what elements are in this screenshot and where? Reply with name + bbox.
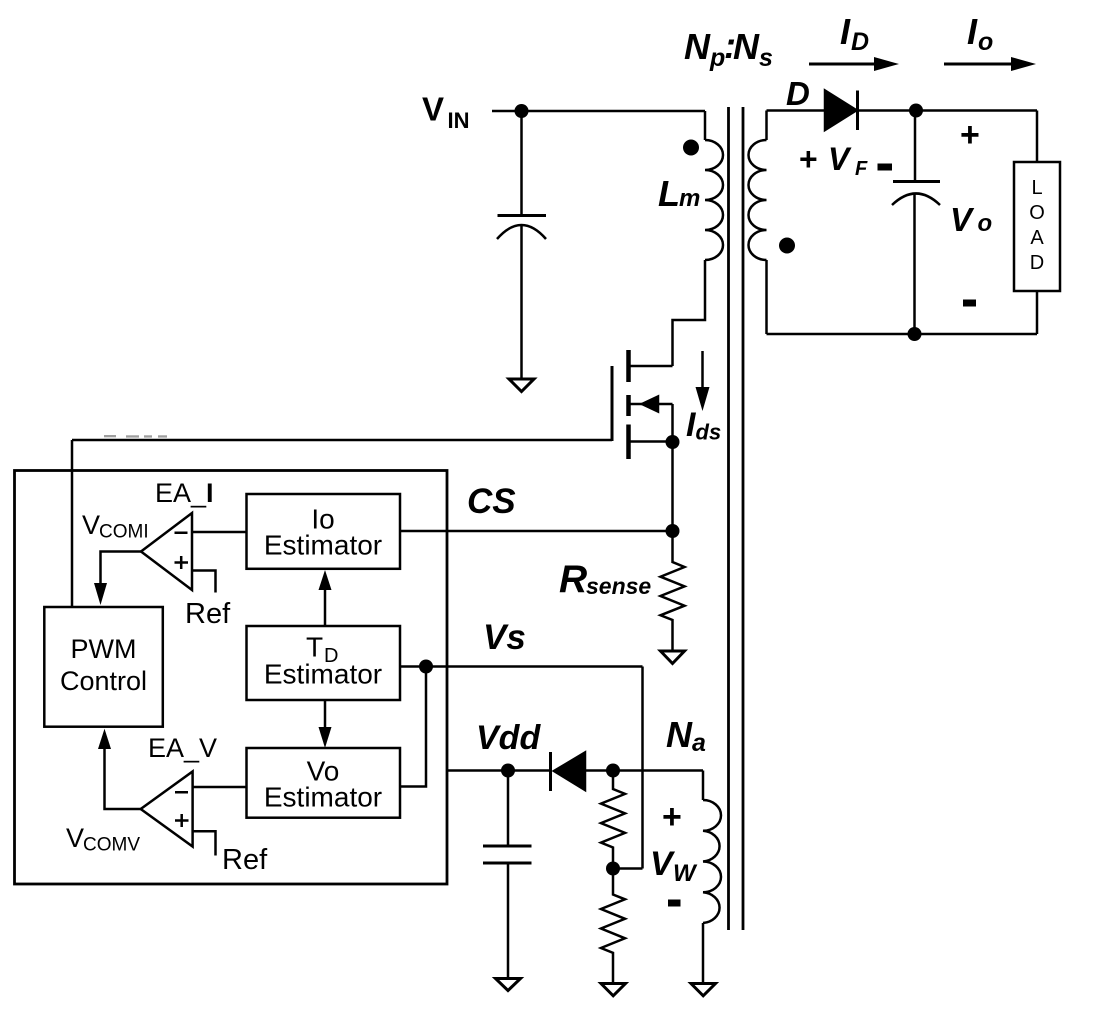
label Vo Estimator xyxy=(264,756,382,813)
svg-text:Ref: Ref xyxy=(222,844,268,876)
node divider mid xyxy=(606,862,620,876)
wire VIN horizontal xyxy=(492,110,705,113)
svg-text:Control: Control xyxy=(60,666,147,696)
transistor Q1 drain lead xyxy=(629,365,673,368)
wire diode to aux winding xyxy=(585,769,703,772)
transistor Q1 body lead xyxy=(629,404,673,442)
capacitor Co lead top xyxy=(914,111,917,183)
svg-text:COMV: COMV xyxy=(83,835,140,856)
svg-text:L: L xyxy=(1031,177,1042,199)
svg-text:O: O xyxy=(1029,202,1045,224)
capacitor Co curved plate xyxy=(892,194,940,206)
arrow TD to Vo xyxy=(324,700,327,728)
node CS xyxy=(666,524,680,538)
label LOAD xyxy=(1029,177,1045,274)
transistor Q1 body arrow xyxy=(642,397,658,412)
wire EA_I inverting input xyxy=(192,531,247,534)
arrow Io xyxy=(944,63,1014,66)
svg-text:D: D xyxy=(1030,252,1044,274)
svg-text:PWM: PWM xyxy=(71,634,137,664)
node divider top xyxy=(606,764,620,778)
svg-text:ds: ds xyxy=(696,420,722,445)
arrow ID xyxy=(809,63,877,66)
svg-text:L: L xyxy=(658,173,680,214)
node primary phase dot xyxy=(683,140,699,156)
capacitor Co plate xyxy=(893,180,940,183)
wire EA_V output VCOMV xyxy=(105,748,141,809)
wire load right top xyxy=(1036,111,1039,163)
svg-text:Ref: Ref xyxy=(185,598,231,630)
node Vs xyxy=(419,660,433,674)
box Vo Estimator xyxy=(247,748,401,818)
svg-text:+: + xyxy=(799,141,818,177)
svg-text:R: R xyxy=(559,558,587,601)
ground Cdd xyxy=(496,979,521,991)
wire aux winding bottom lead xyxy=(702,923,705,983)
svg-text:F: F xyxy=(855,158,868,180)
svg-text:sense: sense xyxy=(586,573,651,599)
node output top xyxy=(909,104,923,118)
wire primary top lead xyxy=(704,111,707,140)
svg-text:a: a xyxy=(692,729,706,757)
ground input xyxy=(509,379,534,392)
capacitor Cin lead top xyxy=(520,111,523,215)
svg-text:EA_V: EA_V xyxy=(148,733,217,763)
transistor Q1 channel dashes xyxy=(626,350,631,459)
svg-text:o: o xyxy=(978,28,993,56)
winding Na auxiliary xyxy=(703,800,721,923)
arrow TD to Io xyxy=(324,589,327,626)
wire aux winding top lead xyxy=(702,771,705,801)
wire primary bottom lead xyxy=(673,260,706,366)
svg-text:Vdd: Vdd xyxy=(476,719,541,757)
diode D xyxy=(825,91,857,131)
capacitor Cdd lead top xyxy=(507,771,510,847)
svg-text:N: N xyxy=(733,26,760,67)
node source xyxy=(666,435,680,449)
svg-text:Vs: Vs xyxy=(483,618,526,657)
wire Vo estimator input xyxy=(400,667,426,787)
svg-text:N: N xyxy=(684,26,711,67)
label - Vw xyxy=(668,900,681,907)
wire diode to load xyxy=(858,109,1038,112)
svg-text:+: + xyxy=(662,798,682,836)
wire EA_V plus input Ref xyxy=(193,831,216,855)
svg-text:V: V xyxy=(828,141,852,177)
wire EA_I output VCOMI xyxy=(101,552,142,585)
wire Vs xyxy=(400,667,643,869)
wire Vdd xyxy=(447,769,551,772)
svg-text:I: I xyxy=(840,11,851,52)
svg-text:Estimator: Estimator xyxy=(264,659,382,690)
wire gate xyxy=(72,440,612,607)
ground Rsense xyxy=(661,651,685,664)
winding secondary xyxy=(749,140,767,260)
svg-text:V: V xyxy=(950,201,975,238)
svg-text:D: D xyxy=(786,75,810,112)
svg-text:N: N xyxy=(666,714,693,755)
wire secondary top lead xyxy=(765,111,768,141)
wire EA_V inverting input xyxy=(193,786,247,789)
label Np:Ns xyxy=(684,25,773,72)
capacitor Cin curved plate xyxy=(497,225,546,239)
label PWM Control xyxy=(60,634,147,696)
arrow Ids xyxy=(701,351,704,392)
wire EA_I plus input Ref xyxy=(192,571,216,593)
wire secondary top xyxy=(767,109,825,112)
box Io Estimator xyxy=(247,494,401,569)
transformer core xyxy=(729,107,744,930)
gate label remnants xyxy=(104,435,167,438)
svg-text:IN: IN xyxy=(448,108,470,133)
capacitor Cin plate xyxy=(498,214,547,217)
inductor Lm primary winding xyxy=(705,140,723,260)
label - output xyxy=(963,300,976,307)
control block xyxy=(15,471,448,885)
wire CS xyxy=(400,530,673,533)
svg-text:I: I xyxy=(967,11,978,52)
box TD Estimator xyxy=(247,626,401,700)
load box xyxy=(1014,162,1060,291)
svg-text:D: D xyxy=(851,28,869,56)
ground aux xyxy=(691,984,716,996)
svg-text:COMI: COMI xyxy=(99,522,149,543)
svg-text:W: W xyxy=(673,860,698,887)
capacitor Co lead bottom xyxy=(913,193,916,334)
node output bottom xyxy=(908,327,922,341)
diode Daux xyxy=(554,753,585,791)
resistor Rsense xyxy=(661,531,685,650)
capacitor Cdd lead bottom xyxy=(507,863,510,978)
capacitor Cdd plates xyxy=(483,846,532,863)
svg-text:Estimator: Estimator xyxy=(264,530,382,561)
capacitor Cin lead bottom xyxy=(520,226,523,378)
op-amp EA_I xyxy=(141,513,192,590)
svg-text:EA_I: EA_I xyxy=(155,478,214,508)
wire output bottom xyxy=(767,333,1038,336)
resistor R2 divider xyxy=(601,869,625,984)
op-amp EA_V xyxy=(141,772,193,847)
transistor Q1 gate bar xyxy=(611,366,614,441)
wire secondary bottom lead xyxy=(765,260,768,334)
transistor Q1 source lead xyxy=(629,440,673,443)
svg-text:s: s xyxy=(759,44,773,72)
label Io Estimator xyxy=(264,504,382,561)
svg-text:V: V xyxy=(422,91,444,128)
svg-text:m: m xyxy=(679,185,700,212)
svg-text:V: V xyxy=(82,510,100,540)
ground divider xyxy=(601,984,626,996)
svg-text:p: p xyxy=(709,44,725,72)
wire load right bottom xyxy=(1036,291,1039,334)
node secondary phase dot xyxy=(779,238,795,254)
svg-text:Estimator: Estimator xyxy=(264,782,382,813)
node Vdd xyxy=(501,764,515,778)
box PWM Control xyxy=(44,607,163,727)
svg-text:+: + xyxy=(960,116,980,154)
node VIN xyxy=(515,104,529,118)
svg-text:V: V xyxy=(66,823,84,853)
resistor R1 divider xyxy=(601,771,625,869)
svg-text:o: o xyxy=(978,210,993,237)
svg-text:CS: CS xyxy=(467,482,516,521)
wire source to CS xyxy=(671,442,674,531)
svg-text:A: A xyxy=(1030,227,1044,249)
